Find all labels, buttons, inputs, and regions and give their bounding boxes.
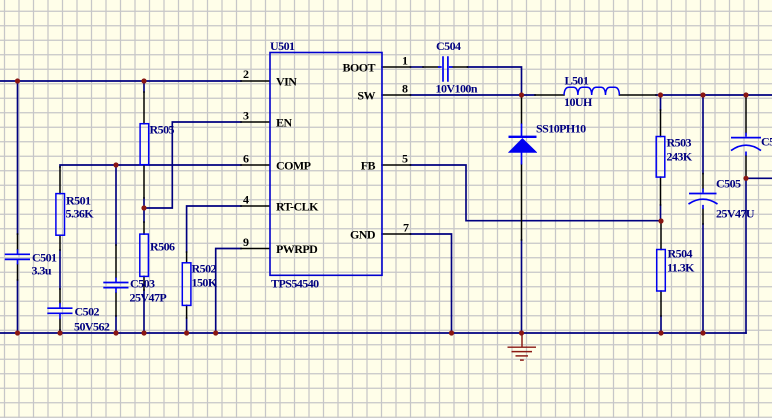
svg-text:TPS54540: TPS54540	[271, 277, 319, 291]
rail junction diode/ground	[519, 330, 524, 335]
svg-text:4: 4	[243, 193, 249, 207]
wire C506 column lower	[745, 178, 747, 333]
pin 2 lead	[241, 80, 269, 82]
capacitor C505 polarized	[689, 194, 718, 205]
svg-text:243K: 243K	[667, 150, 693, 164]
wire R506 bottom stub	[143, 290, 145, 333]
svg-text:2: 2	[243, 67, 249, 81]
pin 1 lead	[382, 66, 411, 68]
capacitor C503 plates	[103, 283, 128, 288]
wire GND pin to rail	[411, 234, 452, 333]
wire SW/VOUT bus right	[656, 94, 772, 96]
wire R501-C502 link	[59, 250, 61, 289]
wire ground rail bottom	[0, 332, 746, 334]
svg-text:C505: C505	[716, 177, 741, 191]
rail junction GND pin	[449, 330, 454, 335]
rail junction R502	[184, 330, 189, 335]
wire BOOT to C504	[411, 66, 424, 68]
svg-text:C506: C506	[761, 135, 772, 149]
capacitor pin stubs	[18, 67, 747, 319]
diode leads	[521, 95, 523, 240]
node EN divider	[141, 205, 146, 210]
svg-text:3.3u: 3.3u	[32, 264, 52, 278]
rail junction R504	[658, 330, 663, 335]
capacitor C502 plates	[47, 308, 72, 313]
svg-text:9: 9	[243, 235, 249, 249]
R506 leads	[143, 222, 145, 290]
svg-text:PWRPD: PWRPD	[276, 242, 318, 256]
wire R503 bottom stub	[660, 205, 662, 221]
C503 leads	[115, 245, 117, 316]
node C506 tap	[743, 176, 748, 181]
pin 4 lead	[241, 205, 269, 207]
node FB	[658, 218, 663, 223]
svg-text:5: 5	[402, 152, 408, 166]
svg-text:GND: GND	[350, 228, 376, 242]
svg-text:R502: R502	[192, 262, 217, 276]
pin 8 lead	[382, 94, 411, 96]
svg-text:6: 6	[243, 152, 249, 166]
inductor L501	[564, 87, 619, 95]
svg-text:R506: R506	[150, 240, 175, 254]
resistor R503	[656, 137, 665, 178]
svg-text:FB: FB	[361, 159, 376, 173]
R502 leads	[186, 252, 188, 318]
C504 leads	[423, 66, 468, 68]
wire C504 to SW node	[468, 67, 522, 95]
wire RT-CLK net	[187, 206, 241, 252]
svg-text:C501: C501	[32, 251, 57, 265]
pin 7 lead	[382, 233, 411, 235]
rail junction C503	[113, 330, 118, 335]
wire C501 column upper	[17, 81, 19, 234]
C501 leads	[17, 234, 19, 280]
C502 leads	[59, 289, 61, 330]
resistor R505	[140, 124, 149, 165]
C505 leads	[702, 174, 704, 225]
svg-text:R501: R501	[66, 194, 91, 208]
pin 6 lead	[241, 164, 269, 166]
svg-text:C503: C503	[130, 277, 155, 291]
svg-text:11.3K: 11.3K	[667, 261, 695, 275]
wire C501 column lower	[17, 280, 19, 333]
pin 5 lead	[382, 164, 411, 166]
svg-text:8: 8	[402, 82, 408, 96]
capacitor C504 plates	[443, 56, 448, 82]
rail junction R506	[141, 330, 146, 335]
svg-text:3: 3	[243, 109, 249, 123]
node VOUT/R503	[658, 92, 663, 97]
svg-text:C502: C502	[75, 305, 100, 319]
svg-text:1: 1	[402, 54, 408, 68]
wire R504 bottom stub	[660, 316, 662, 333]
R501 leads	[59, 167, 61, 250]
wire C505 column	[702, 95, 704, 333]
C506 leads	[745, 95, 747, 178]
node COMP/C503	[113, 162, 118, 167]
rail junction PWRPD	[213, 330, 218, 335]
resistor R504	[657, 250, 666, 292]
wire C502 bottom stub	[59, 330, 61, 333]
capacitor C501 plates	[5, 254, 30, 259]
svg-text:C504: C504	[436, 39, 461, 53]
pin 9 lead	[241, 248, 269, 250]
L501 leads	[535, 94, 656, 96]
wire C506 tap to right edge	[746, 177, 772, 179]
wire SW pin to node	[411, 94, 536, 96]
op-amp U501 rectangle TPS54540	[270, 53, 382, 276]
node VIN/R505	[141, 78, 146, 83]
svg-text:BOOT: BOOT	[343, 61, 376, 75]
svg-text:EN: EN	[276, 116, 292, 130]
wire R503 top stub	[660, 95, 662, 110]
resistor R506	[140, 234, 149, 276]
svg-text:L501: L501	[565, 74, 589, 88]
svg-text:RT-CLK: RT-CLK	[276, 200, 319, 214]
rail junction C501	[15, 330, 20, 335]
node VOUT/C506	[743, 92, 748, 97]
rail junction C505	[700, 330, 705, 335]
wire PWRPD net	[216, 249, 241, 334]
svg-text:U501: U501	[270, 39, 295, 53]
svg-text:10UH: 10UH	[564, 95, 593, 109]
wire COMP net	[60, 165, 241, 167]
svg-text:COMP: COMP	[276, 159, 311, 173]
svg-text:25V47U: 25V47U	[716, 207, 755, 221]
wire EN node: R505 bottom to R506, across to EN pin	[144, 122, 241, 222]
resistor R501	[56, 194, 65, 236]
svg-text:150K: 150K	[192, 276, 218, 290]
svg-text:10V100n: 10V100n	[436, 82, 478, 96]
svg-text:SS10PH10: SS10PH10	[536, 121, 586, 135]
capacitor C506 polarized	[731, 138, 761, 151]
wire diode column lower	[521, 240, 523, 333]
wire R502 bottom stub	[186, 318, 188, 333]
diode SS10PH10	[508, 124, 537, 165]
wire VIN bus top	[0, 80, 241, 82]
node VIN/C501	[15, 78, 20, 83]
svg-text:R503: R503	[667, 136, 692, 150]
R503 leads	[660, 110, 662, 205]
wire R505 top stub	[143, 81, 145, 92]
svg-text:50V562: 50V562	[74, 320, 110, 334]
svg-text:SW: SW	[357, 89, 375, 103]
svg-text:25V47P: 25V47P	[130, 291, 167, 305]
rail junction C502	[57, 330, 62, 335]
node VOUT/C505	[700, 92, 705, 97]
R504 leads	[660, 224, 662, 316]
svg-text:VIN: VIN	[276, 75, 297, 89]
ground symbol	[508, 333, 537, 360]
wire FB net	[411, 165, 662, 221]
svg-text:R505: R505	[150, 123, 175, 137]
svg-text:R504: R504	[668, 247, 693, 261]
node SW	[519, 92, 524, 97]
svg-text:5.36K: 5.36K	[66, 207, 95, 221]
svg-text:7: 7	[403, 221, 409, 235]
resistor R502	[182, 263, 191, 306]
R505 leads	[143, 92, 145, 198]
pin 3 lead	[241, 121, 269, 123]
wire C503 column	[115, 165, 117, 333]
